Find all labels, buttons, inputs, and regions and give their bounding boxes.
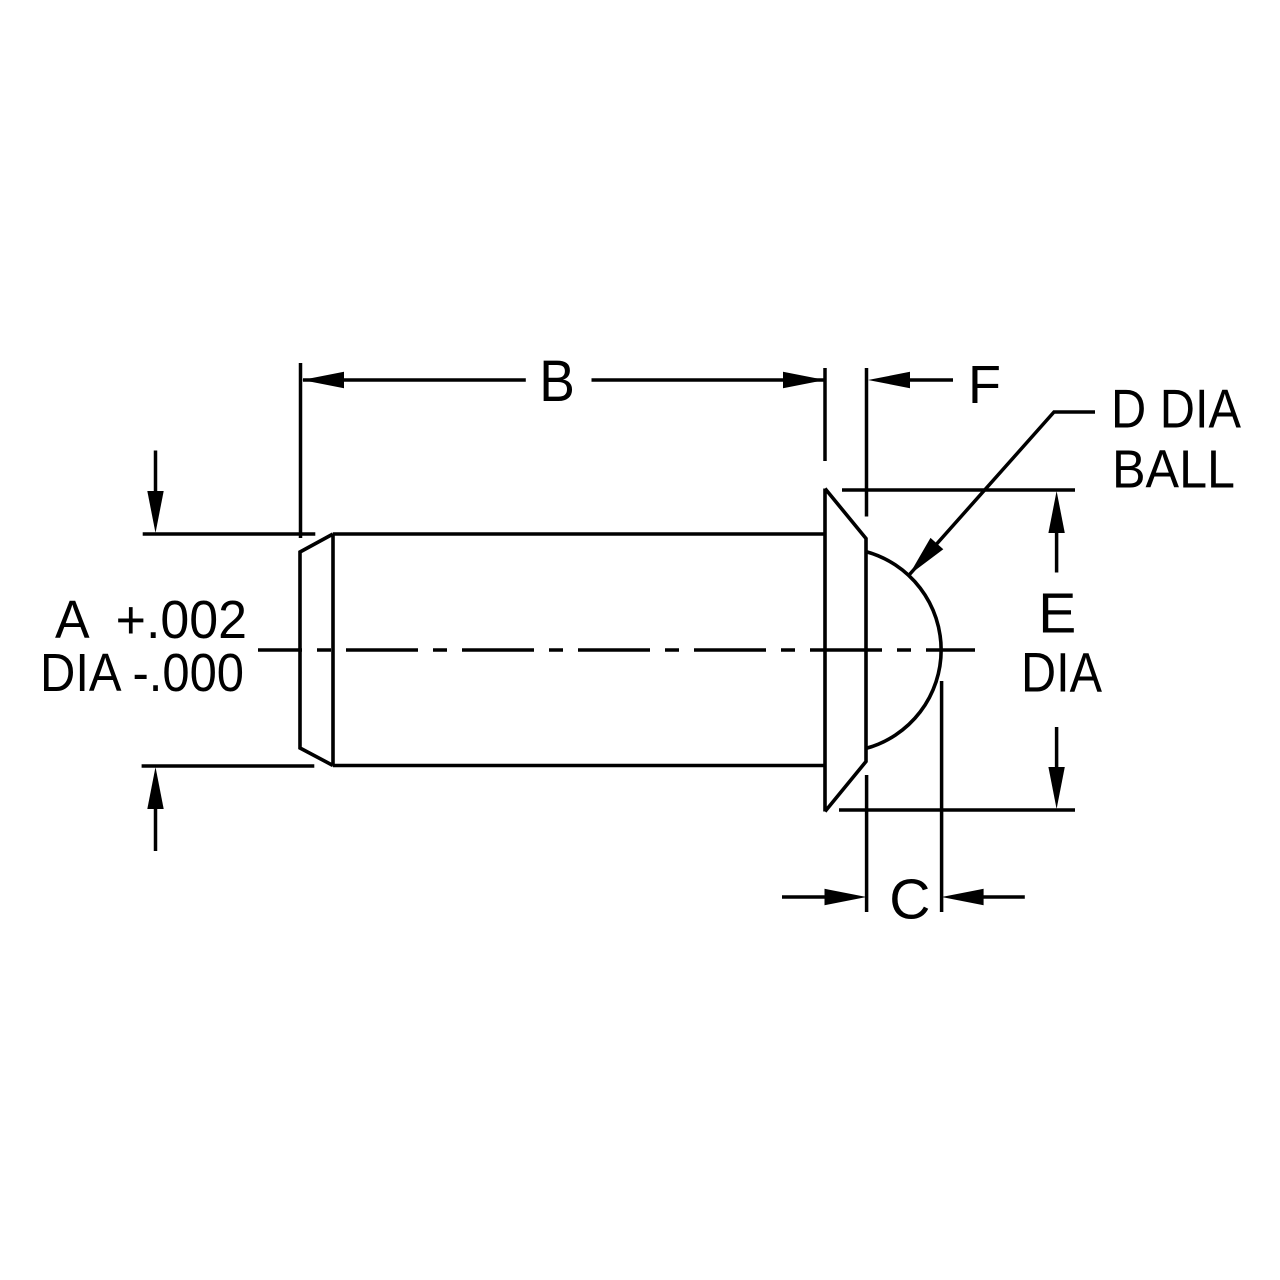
svg-text:DIA -.000: DIA -.000	[40, 643, 244, 703]
dimension C line right segment	[978, 895, 1025, 899]
dimension A top arrowhead	[147, 491, 163, 533]
svg-text:E: E	[1038, 582, 1076, 646]
svg-text:BALL: BALL	[1112, 440, 1235, 500]
dimension B right arrowhead	[783, 372, 825, 388]
dimension E bottom arrow shaft	[1055, 727, 1059, 767]
centerline	[258, 648, 975, 652]
dimension C left extension line	[865, 775, 869, 912]
svg-text:B: B	[539, 349, 575, 414]
dimension E bottom extension line	[839, 808, 1075, 812]
pin head flange	[825, 489, 866, 812]
dimension F extension line	[865, 368, 869, 517]
dimension C line left segment	[782, 895, 832, 899]
dimension E bottom arrowhead	[1048, 767, 1064, 809]
dimension E top arrow shaft	[1055, 533, 1059, 573]
dimension B left extension line	[299, 363, 303, 538]
dimension A top arrow shaft	[154, 451, 158, 496]
pin body top and bottom lines	[333, 534, 825, 766]
dimension C right arrowhead	[942, 889, 984, 905]
leader arrowhead	[909, 538, 943, 575]
dimension B left arrowhead	[302, 372, 344, 388]
dimension B line left segment	[303, 378, 526, 382]
dimension C left arrowhead	[825, 889, 867, 905]
dimension C right extension line	[940, 681, 944, 912]
svg-text:C: C	[889, 868, 930, 932]
dimension A bottom extension line	[142, 764, 315, 768]
dimension F line	[906, 378, 953, 382]
dimension B line right segment	[592, 378, 826, 382]
svg-text:F: F	[968, 355, 1001, 415]
pin body left chamfered end	[300, 534, 333, 766]
svg-text:D DIA: D DIA	[1111, 378, 1241, 440]
svg-text:A +.002: A +.002	[55, 590, 247, 650]
dimension A bottom arrow shaft	[154, 806, 158, 851]
leader line for D DIA BALL	[910, 412, 1096, 575]
dimension A bottom arrowhead	[147, 767, 163, 809]
dimension F arrowhead	[868, 372, 910, 388]
svg-text:DIA: DIA	[1021, 641, 1103, 704]
dimension B right extension line	[823, 368, 827, 461]
dimension E top arrowhead	[1048, 491, 1064, 533]
dimension E top extension line	[842, 488, 1075, 492]
ball arc	[866, 552, 941, 749]
dimension A top extension line	[143, 532, 316, 536]
